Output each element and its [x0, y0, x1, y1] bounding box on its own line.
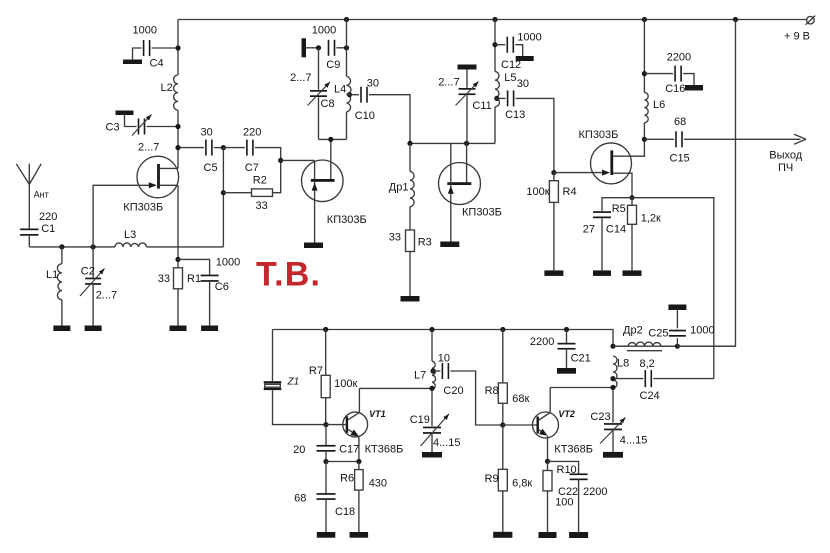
- capacitor C8 2...7 trimmer: [290, 48, 334, 140]
- node L7 bottom junction: [429, 386, 434, 391]
- svg-text:C24: C24: [640, 390, 660, 402]
- svg-text:R1: R1: [187, 273, 201, 285]
- wire VT1 collector to L7: [359, 387, 432, 389]
- antenna Ант: [16, 164, 48, 229]
- svg-text:6,8к: 6,8к: [512, 478, 532, 490]
- svg-text:L4: L4: [334, 84, 346, 96]
- svg-text:КТ368Б: КТ368Б: [365, 444, 404, 456]
- resistor R7 100к: [309, 330, 358, 425]
- capacitor C3 2...7 trimmer: [106, 111, 181, 154]
- wire +9V top supply rail: [178, 19, 807, 21]
- svg-text:68: 68: [294, 493, 306, 505]
- inductor Др2 choke: [613, 325, 677, 351]
- node C24 tap: [610, 376, 615, 381]
- svg-text:Выход: Выход: [769, 150, 802, 162]
- capacitor C22 2200: [548, 461, 608, 532]
- svg-text:1000: 1000: [216, 257, 240, 269]
- node Др1 junction: [407, 141, 412, 146]
- svg-text:Ант: Ант: [34, 190, 49, 200]
- capacitor C4 1000: [123, 25, 181, 70]
- svg-text:30: 30: [201, 127, 213, 139]
- transistor Q4 КП303Б: [579, 129, 645, 198]
- svg-text:2...7: 2...7: [438, 77, 459, 89]
- ground C18: [317, 532, 336, 538]
- resistor R3 33: [389, 230, 432, 296]
- inductor L2: [161, 75, 179, 110]
- ground L1: [53, 326, 70, 332]
- wire bottom rail: [273, 330, 614, 347]
- svg-text:R8: R8: [485, 385, 499, 397]
- node R4 gate junction: [551, 170, 556, 175]
- svg-text:Z1: Z1: [287, 377, 300, 388]
- svg-text:C5: C5: [204, 162, 218, 174]
- ground R9: [493, 532, 512, 538]
- svg-text:100: 100: [555, 497, 573, 509]
- wire C5 to L3 column: [222, 148, 224, 247]
- node top rail junction x644: [642, 17, 647, 22]
- capacitor C24 8,2: [613, 358, 714, 402]
- resistor R1 33: [158, 268, 201, 289]
- text Т.В.: [256, 256, 321, 294]
- svg-text:C12: C12: [501, 59, 521, 71]
- node R6 emitter junction: [356, 459, 361, 464]
- svg-text:C13: C13: [505, 109, 525, 121]
- svg-text:20: 20: [293, 444, 305, 456]
- capacitor C1 220: [20, 211, 57, 247]
- svg-text:1000: 1000: [517, 32, 541, 44]
- node L8 bottom junction: [610, 385, 615, 390]
- capacitor C25 1000: [648, 305, 714, 347]
- node VT2 base junction: [500, 422, 505, 427]
- svg-text:33: 33: [256, 200, 268, 212]
- wire VT2 collector to L8: [550, 387, 613, 389]
- svg-text:4...15: 4...15: [620, 435, 648, 447]
- node R8 rail junction: [500, 327, 505, 332]
- svg-text:R2: R2: [253, 175, 267, 187]
- capacitor C7 220: [223, 127, 280, 175]
- svg-text:C22: C22: [558, 486, 578, 498]
- svg-text:C3: C3: [106, 122, 120, 134]
- svg-text:2...7: 2...7: [138, 142, 159, 154]
- svg-text:L6: L6: [653, 99, 665, 111]
- transistor VT1 КТ368Б: [326, 388, 403, 461]
- svg-text:КП303Б: КП303Б: [462, 207, 502, 219]
- wire tank2 column: [346, 20, 348, 140]
- svg-text:68: 68: [674, 116, 686, 128]
- ground R4: [544, 270, 563, 276]
- svg-text:68к: 68к: [512, 393, 529, 405]
- capacitor C17 20: [293, 425, 359, 462]
- svg-text:R7: R7: [309, 365, 323, 377]
- capacitor C2 2...7 trimmer: [80, 247, 117, 326]
- node R2 left junction: [221, 190, 226, 195]
- node C12 junction: [492, 42, 497, 47]
- node C25 junction: [675, 344, 680, 349]
- resistor R9 6,8к: [485, 425, 533, 532]
- node R7 rail junction: [323, 327, 328, 332]
- ground C21: [557, 368, 576, 374]
- capacitor C15 68: [644, 116, 800, 165]
- node R5 junction: [629, 195, 634, 200]
- svg-text:2200: 2200: [530, 336, 554, 348]
- capacitor C13 30: [494, 78, 554, 173]
- svg-text:C23: C23: [590, 411, 610, 423]
- svg-text:C15: C15: [670, 153, 690, 165]
- resistor R4 100к: [526, 173, 576, 271]
- wire source column Q1: [177, 185, 179, 325]
- svg-text:Др2: Др2: [623, 325, 643, 337]
- ground R3: [401, 296, 420, 302]
- inductor L7: [414, 330, 436, 390]
- wire tank2 bottom bracket: [319, 138, 347, 140]
- svg-text:C17: C17: [339, 444, 359, 456]
- svg-text:C9: C9: [326, 59, 340, 71]
- node L7 rail junction: [429, 327, 434, 332]
- ground C14: [593, 270, 611, 276]
- svg-text:VT2: VT2: [558, 409, 575, 419]
- svg-text:КП303Б: КП303Б: [579, 129, 619, 141]
- node VT1 base junction: [323, 422, 328, 427]
- node Q3 drain junction: [464, 141, 469, 146]
- resistor R2 33: [223, 160, 280, 212]
- svg-text:+ 9 В: + 9 В: [784, 31, 810, 43]
- svg-text:Др1: Др1: [389, 182, 409, 194]
- svg-text:R5: R5: [612, 203, 626, 215]
- inductor L4: [334, 77, 351, 112]
- svg-text:C2: C2: [81, 266, 95, 278]
- svg-text:1,2к: 1,2к: [641, 213, 661, 225]
- wire input node A: [29, 246, 223, 248]
- transistor Q3 КП303Б: [439, 143, 502, 241]
- ground C19: [422, 452, 442, 458]
- svg-text:C6: C6: [215, 281, 229, 293]
- svg-text:C11: C11: [472, 100, 491, 112]
- node L1 junction: [59, 244, 64, 249]
- svg-text:R3: R3: [418, 237, 432, 249]
- ground R5: [623, 270, 642, 276]
- inductor L8: [613, 356, 629, 388]
- capacitor C6 1000: [178, 257, 240, 332]
- node C16 junction: [642, 71, 647, 76]
- node top rail junction x495: [492, 17, 497, 22]
- wire gate riser Q1: [93, 185, 150, 247]
- svg-text:C7: C7: [245, 162, 259, 174]
- svg-text:C8: C8: [321, 98, 335, 110]
- svg-text:8,2: 8,2: [640, 358, 655, 370]
- svg-text:27: 27: [583, 224, 595, 236]
- svg-text:30: 30: [517, 78, 529, 90]
- inductor L1: [46, 247, 62, 326]
- svg-text:1000: 1000: [312, 25, 336, 37]
- capacitor C16 2200: [644, 52, 703, 96]
- svg-text:C18: C18: [335, 506, 355, 518]
- svg-text:C4: C4: [150, 58, 164, 70]
- svg-text:430: 430: [369, 478, 387, 490]
- wire gate Q4: [554, 172, 602, 174]
- ground R1: [170, 326, 187, 332]
- node C20 tap: [430, 368, 435, 373]
- ground C22: [569, 532, 588, 538]
- wire +9V drop right: [613, 20, 736, 347]
- ground R6: [350, 532, 369, 538]
- ground R10: [539, 532, 557, 538]
- node C5 C7 junction: [221, 145, 226, 150]
- capacitor C19 4...15 trimmer: [410, 389, 461, 452]
- svg-text:L8: L8: [617, 358, 629, 370]
- wire Др2 to +9V drop: [677, 345, 735, 347]
- inductor Др1 choke: [389, 143, 415, 230]
- capacitor C21 2200: [530, 330, 591, 369]
- ground Q2: [304, 243, 323, 249]
- node R1 C6 junction: [175, 257, 180, 262]
- svg-text:C16: C16: [665, 83, 685, 95]
- inductor L6: [644, 92, 665, 122]
- svg-text:100к: 100к: [526, 186, 549, 198]
- svg-text:220: 220: [243, 127, 261, 139]
- svg-text:2...7: 2...7: [290, 72, 311, 84]
- capacitor C11 2...7 trimmer: [438, 65, 492, 144]
- svg-text:L7: L7: [414, 370, 426, 382]
- svg-text:30: 30: [367, 78, 379, 90]
- svg-text:L1: L1: [46, 269, 58, 281]
- ground C23: [603, 452, 623, 458]
- svg-text:2200: 2200: [583, 486, 607, 498]
- svg-text:C1: C1: [41, 223, 55, 235]
- inductor L5: [495, 71, 517, 106]
- resistor R8 68к: [485, 330, 530, 426]
- node VT2 emitter junction: [545, 459, 550, 464]
- wire L6 column: [643, 20, 645, 140]
- wire output arrow Выход ПЧ: [769, 134, 806, 174]
- capacitor C18 68: [294, 462, 355, 533]
- ground Q3: [440, 242, 459, 248]
- capacitor C5 30: [175, 127, 223, 175]
- svg-text:Т.В.: Т.В.: [256, 256, 321, 294]
- svg-text:220: 220: [39, 211, 57, 223]
- svg-text:100к: 100к: [334, 378, 357, 390]
- svg-text:C10: C10: [355, 110, 375, 122]
- terminal +9 V: [784, 16, 815, 43]
- capacitor C9 1000: [302, 25, 350, 72]
- node Др2 L8 junction: [610, 344, 615, 349]
- node R2 C7 junction: [278, 158, 283, 163]
- wire VT2 base: [503, 424, 537, 426]
- wire R5 to C24 riser: [632, 198, 714, 379]
- node C2 junction: [91, 244, 96, 249]
- ground C2: [85, 326, 102, 332]
- svg-text:L5: L5: [504, 72, 516, 84]
- svg-text:C14: C14: [606, 224, 626, 236]
- resistor R5 1,2к: [612, 198, 661, 271]
- wire emitter link VT1: [326, 461, 359, 463]
- node C17 C18 junction: [323, 459, 328, 464]
- crystal Z1: [264, 330, 326, 425]
- svg-text:33: 33: [158, 273, 170, 285]
- svg-text:C20: C20: [443, 385, 463, 397]
- svg-text:C19: C19: [410, 414, 430, 426]
- svg-text:10: 10: [438, 353, 450, 365]
- wire interstage y143: [410, 142, 495, 144]
- svg-text:L2: L2: [161, 82, 173, 94]
- svg-text:4...15: 4...15: [433, 437, 461, 449]
- wire Q2 drain: [330, 139, 332, 179]
- svg-text:КП303Б: КП303Б: [327, 214, 367, 226]
- capacitor C10 30: [347, 78, 411, 144]
- svg-text:L3: L3: [124, 229, 136, 241]
- svg-text:2...7: 2...7: [96, 290, 117, 302]
- svg-text:КТ368Б: КТ368Б: [554, 444, 593, 456]
- svg-text:R6: R6: [340, 473, 354, 485]
- wire stage1 drain column: [177, 20, 179, 169]
- wire tank3 column: [494, 20, 496, 144]
- svg-text:1000: 1000: [133, 25, 157, 37]
- resistor R6 430: [340, 462, 387, 533]
- svg-text:КП303Б: КП303Б: [123, 202, 163, 214]
- capacitor C14 27: [583, 198, 632, 271]
- capacitor C12 1000: [495, 32, 542, 72]
- svg-text:C21: C21: [571, 353, 591, 365]
- transistor Q1 КП303Б: [123, 156, 178, 213]
- transistor Q2 КП303Б: [302, 160, 367, 243]
- wire to Q2 source: [281, 159, 315, 161]
- inductor L3: [115, 229, 147, 247]
- node top rail junction x735: [733, 17, 738, 22]
- svg-text:ПЧ: ПЧ: [778, 162, 793, 174]
- svg-text:1000: 1000: [690, 325, 714, 337]
- svg-text:33: 33: [389, 232, 401, 244]
- svg-text:C25: C25: [648, 328, 668, 340]
- transistor VT2 КТ368Б: [533, 388, 594, 462]
- node output junction: [642, 137, 647, 142]
- capacitor C20 10: [432, 353, 503, 426]
- svg-text:2200: 2200: [667, 52, 691, 64]
- capacitor C23 4...15 trimmer: [590, 388, 647, 452]
- node tank2 center: [328, 137, 333, 142]
- resistor R10 100: [543, 461, 577, 532]
- node C21 rail junction: [564, 327, 569, 332]
- svg-text:R4: R4: [563, 186, 577, 198]
- node top rail junction x346: [344, 17, 349, 22]
- svg-text:VT1: VT1: [369, 409, 386, 419]
- svg-text:R9: R9: [485, 473, 499, 485]
